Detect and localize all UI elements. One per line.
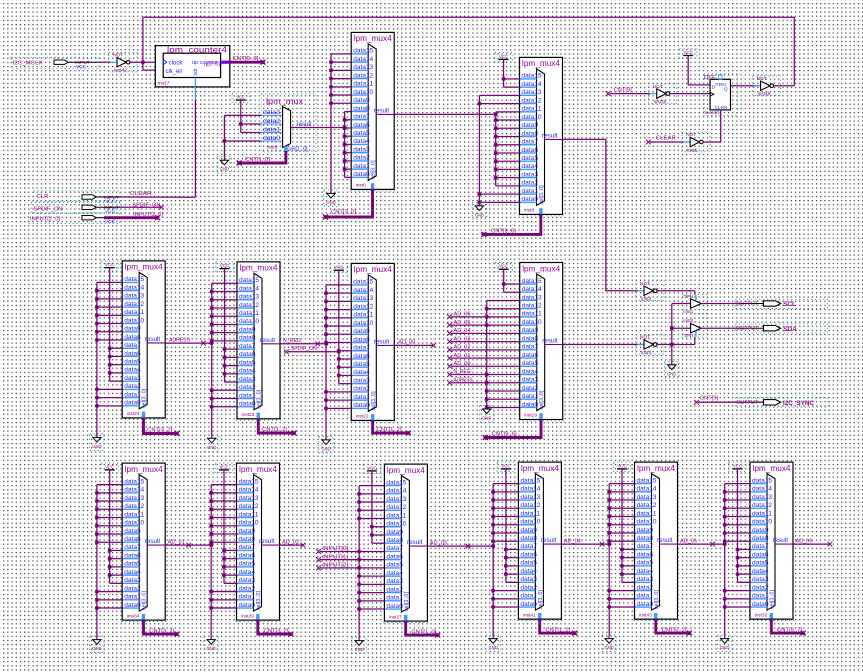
svg-text:GND: GND (475, 212, 484, 217)
svg-text:VCC: VCC (367, 465, 376, 470)
svg-text:D: D (712, 84, 716, 90)
svg-text:GND: GND (326, 200, 335, 205)
svg-text:CLEAR: CLEAR (130, 191, 152, 197)
svg-text:Q: Q (724, 87, 728, 93)
svg-text:inst40: inst40 (705, 110, 719, 116)
svg-text:OUTPUT: OUTPUT (736, 301, 758, 307)
svg-text:GND: GND (605, 645, 614, 650)
svg-text:AD_06: AD_06 (796, 538, 813, 544)
svg-text:VCC: VCC (76, 64, 87, 69)
svg-text:GND: GND (92, 444, 101, 449)
svg-text:I2C_MCLK: I2C_MCLK (13, 61, 43, 67)
svg-text:AD_05: AD_05 (454, 320, 471, 326)
svg-text:sel[1..0]: sel[1..0] (289, 147, 308, 153)
svg-text:AD_01: AD_01 (168, 539, 185, 545)
svg-text:CNT[3..0]: CNT[3..0] (331, 210, 357, 216)
svg-text:inst42: inst42 (114, 68, 127, 74)
svg-text:CNT[5..2]: CNT[5..2] (662, 627, 688, 633)
svg-text:inst29: inst29 (241, 613, 254, 619)
svg-text:VCC: VCC (617, 463, 626, 468)
svg-text:GND: GND (482, 416, 491, 421)
svg-text:AD_05: AD_05 (680, 538, 697, 544)
svg-text:VCC: VCC (220, 263, 229, 268)
svg-text:VCC: VCC (105, 219, 116, 224)
svg-text:VCC: VCC (105, 198, 116, 203)
svg-text:CNT[3..2]: CNT[3..2] (147, 428, 173, 434)
svg-text:AD_00: AD_00 (398, 340, 415, 346)
svg-text:SPDIF_ON: SPDIF_ON (34, 206, 63, 212)
svg-text:data1: data1 (263, 126, 280, 133)
svg-text:inst5: inst5 (687, 147, 697, 153)
svg-text:VCC: VCC (105, 209, 116, 214)
svg-text:CNT[1..2]: CNT[1..2] (377, 427, 403, 433)
svg-text:GND: GND (667, 371, 676, 376)
svg-text:INPUT[1]: INPUT[1] (322, 554, 349, 560)
svg-text:N_REG: N_REG (454, 369, 471, 375)
svg-text:VCC: VCC (499, 54, 508, 59)
svg-text:AD_01: AD_01 (454, 353, 471, 359)
svg-text:CNT[9..7]: CNT[9..7] (777, 627, 803, 633)
svg-text:OUTPUT: OUTPUT (736, 400, 758, 406)
svg-text:inst24: inst24 (127, 411, 140, 417)
svg-text:inst27: inst27 (389, 614, 402, 620)
svg-text:data3: data3 (263, 109, 280, 116)
svg-text:inst3: inst3 (641, 296, 651, 302)
svg-text:inst4: inst4 (641, 350, 651, 356)
svg-text:inst32: inst32 (755, 612, 768, 618)
svg-text:GND: GND (720, 645, 729, 650)
svg-text:INPUT[2..0]: INPUT[2..0] (30, 217, 60, 223)
svg-text:AD_03: AD_03 (454, 336, 471, 342)
svg-text:inst22: inst22 (356, 414, 369, 420)
svg-text:TRI: TRI (683, 333, 693, 339)
svg-text:VCC: VCC (105, 464, 114, 469)
svg-text:ADRESS: ADRESS (169, 337, 191, 343)
svg-text:CNT[1..0]: CNT[1..0] (411, 629, 437, 635)
svg-text:INPUT[0]: INPUT[0] (322, 546, 349, 552)
svg-text:inst43: inst43 (639, 612, 652, 618)
svg-text:CNT[3..2]: CNT[3..2] (149, 628, 175, 634)
svg-text:N_REG: N_REG (283, 338, 301, 344)
svg-text:clock: clock (169, 60, 184, 66)
svg-text:q[3..0]: q[3..0] (204, 62, 221, 68)
svg-text:ADRESS: ADRESS (454, 377, 473, 383)
svg-text:CNT[3..2]: CNT[3..2] (264, 628, 290, 634)
svg-text:CLEAR: CLEAR (656, 136, 676, 142)
svg-text:inst9: inst9 (267, 144, 278, 150)
svg-text:SCL: SCL (783, 301, 796, 308)
svg-text:INPUT[2..0]: INPUT[2..0] (133, 212, 164, 218)
svg-text:GND: GND (207, 646, 216, 651)
svg-text:CNT[9]: CNT[9] (614, 88, 633, 94)
svg-text:AD_02: AD_02 (454, 345, 471, 351)
svg-text:inst45: inst45 (654, 99, 667, 105)
svg-text:CNT[1..2]: CNT[1..2] (262, 427, 288, 433)
svg-text:VCC: VCC (334, 265, 343, 270)
svg-text:VCC: VCC (219, 464, 228, 469)
svg-text:I2C_SYNC: I2C_SYNC (783, 400, 814, 407)
svg-text:data0: data0 (263, 135, 280, 142)
svg-text:inst34: inst34 (127, 613, 140, 619)
svg-text:AD_02: AD_02 (282, 539, 299, 545)
svg-text:SPDIF_ON: SPDIF_ON (132, 203, 160, 209)
svg-text:clk_en: clk_en (166, 69, 183, 75)
svg-text:AD_03: AD_03 (430, 540, 447, 546)
svg-text:inst23: inst23 (242, 412, 255, 418)
svg-text:AD_04: AD_04 (564, 538, 581, 544)
svg-text:AD_04: AD_04 (454, 328, 471, 334)
svg-text:sclr: sclr (193, 68, 199, 75)
svg-text:inst8: inst8 (524, 208, 534, 214)
svg-text:GND: GND (92, 646, 101, 651)
svg-text:VCC: VCC (501, 463, 510, 468)
svg-text:VCC: VCC (684, 50, 693, 55)
svg-text:lpm_counter4: lpm_counter4 (167, 45, 227, 55)
svg-text:CLR: CLR (37, 194, 49, 200)
svg-text:GND: GND (220, 167, 229, 172)
svg-text:CNT[9..0]: CNT[9..0] (233, 56, 260, 62)
svg-text:INPUT[2]: INPUT[2] (322, 563, 349, 569)
svg-text:AD_06: AD_06 (454, 312, 471, 318)
svg-text:data2: data2 (263, 118, 280, 125)
svg-text:VCC: VCC (236, 94, 245, 99)
svg-text:SDA: SDA (783, 326, 797, 333)
svg-text:CNT[9]: CNT[9] (700, 395, 719, 401)
svg-text:CNT[1..2]: CNT[1..2] (545, 627, 571, 633)
svg-text:inst19: inst19 (524, 413, 537, 419)
svg-text:CNT[9..6]: CNT[9..6] (491, 229, 517, 235)
svg-text:VCC: VCC (499, 264, 508, 269)
svg-text:SPDIF_ON: SPDIF_ON (291, 346, 317, 352)
svg-text:CNT[9..6]: CNT[9..6] (492, 432, 518, 438)
svg-text:GND: GND (321, 446, 330, 451)
svg-text:inst41: inst41 (523, 612, 536, 618)
svg-text:VCC: VCC (733, 463, 742, 468)
svg-text:lpm_mux: lpm_mux (266, 97, 303, 106)
svg-text:AD_00: AD_00 (454, 361, 471, 367)
svg-text:inst1: inst1 (683, 309, 693, 315)
svg-text:GND: GND (488, 645, 497, 650)
svg-text:inst46: inst46 (758, 91, 771, 97)
svg-text:inst2: inst2 (683, 318, 693, 324)
svg-text:GND: GND (354, 647, 363, 652)
svg-text:GND: GND (207, 445, 216, 450)
svg-text:CNT[1..0]: CNT[1..0] (245, 157, 271, 163)
svg-text:inst7: inst7 (158, 80, 170, 86)
svg-text:OUTPUT: OUTPUT (736, 326, 758, 332)
svg-text:inst6: inst6 (356, 183, 366, 189)
svg-text:VCC: VCC (105, 262, 114, 267)
